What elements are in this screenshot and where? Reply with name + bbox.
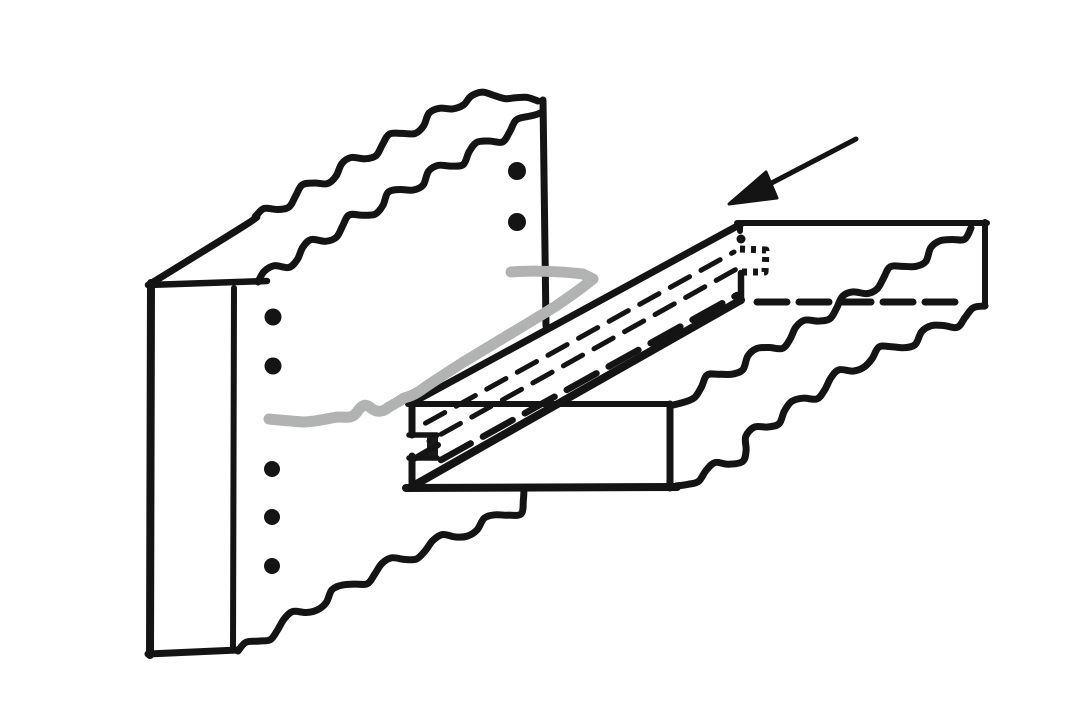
gray pen annotation mark [269,271,593,422]
panel lower-right break edge (wavy) [238,488,524,651]
groove notch gray shading [419,447,432,457]
far end vertical stub [738,273,745,301]
panel back break edge (upper wavy) [150,92,538,284]
board top-left long edge [410,224,741,404]
panel bottom edge [148,650,238,654]
panel side-face top edge [148,281,267,285]
panel screw dot 2 [508,213,526,231]
groove notch dark interior [427,437,438,459]
groove end dotted outline [740,249,766,272]
panel screw dot 3 [265,309,282,326]
groove notch top edge [409,432,437,438]
panel front-left vertical edge [233,288,234,650]
groove hidden edge dashed 2 [429,266,742,441]
panel front break edge (lower wavy) [258,112,542,282]
far corner tick [737,224,743,231]
board end face top edge [408,401,670,407]
direction arrow shaft [762,139,856,188]
groove hidden edge dashed 1 [415,252,734,429]
board lower break edge (wavy) [676,306,985,486]
groove inner visible edge [412,445,438,460]
panel screw dot 4 [265,358,282,375]
board end face bottom edge [406,487,677,488]
panel right edge [543,100,546,326]
board far top edge [737,220,987,226]
board hidden bottom far edge dashed [757,299,963,306]
groove notch bottom edge [409,455,437,461]
panel screw dot 5 [264,461,280,477]
direction arrow head [729,172,777,204]
board bottom-left long edge [413,300,741,486]
groove hidden edge dashed 3 [441,295,737,460]
panel left edge [150,283,151,655]
panel screw dot 7 [264,558,280,574]
panel screw dot 6 [264,509,280,525]
far corner dot [737,235,746,244]
board far right edge [982,222,988,306]
board end face left edge lower [409,456,416,488]
board upper break edge (wavy) [673,228,971,405]
board end face right edge [667,404,674,488]
panel screw dot 1 [508,162,526,180]
board end face left edge upper [409,402,416,435]
